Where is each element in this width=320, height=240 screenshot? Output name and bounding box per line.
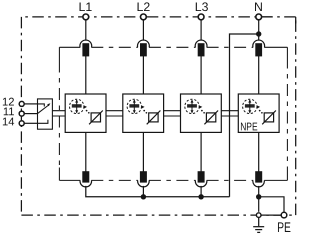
varistor L1	[89, 111, 103, 125]
wire jump L2 under linkage	[138, 180, 150, 187]
mechanical linkage right line	[286, 47, 288, 180]
wire jump L2 over linkage	[138, 40, 150, 47]
contact 14 stub	[38, 120, 48, 124]
wire terminal 11	[24, 113, 37, 115]
node bus L2	[141, 194, 146, 199]
spark gap NPE	[262, 111, 276, 125]
wire L3 module output	[200, 132, 202, 171]
disconnector NPE output	[256, 172, 262, 182]
remote signalling contact box	[38, 99, 53, 129]
mechanical linkage bottom line	[59, 179, 287, 181]
wire jump L3 under linkage	[195, 180, 207, 187]
mechanical coupling double line M2-M3	[164, 111, 181, 116]
mechanical coupling double line M1-M2	[106, 111, 123, 116]
wire N drop	[258, 20, 260, 40]
thermal disconnector monitor L2 (dashed circle)	[127, 99, 141, 113]
disconnector (thermal fuse) L1	[83, 44, 89, 56]
disconnector L3 output	[198, 172, 204, 182]
terminal circle L3	[198, 14, 204, 20]
terminal circle L1	[83, 14, 89, 20]
svg-text:L1: L1	[79, 0, 93, 14]
wire L3 to module	[200, 56, 202, 94]
disconnector (thermal fuse) N	[256, 44, 262, 56]
wire N to NPE module	[258, 56, 260, 94]
svg-text:L2: L2	[137, 0, 151, 14]
wire jump L1 under linkage	[80, 180, 92, 187]
disconnector (thermal fuse) L2	[141, 44, 147, 56]
module L3 box	[181, 94, 222, 132]
svg-text:L3: L3	[195, 0, 209, 14]
terminal circle 11	[19, 111, 24, 116]
wire L2 output to bus	[142, 186, 144, 197]
ground symbol	[253, 218, 264, 232]
wire terminal 14	[24, 122, 37, 124]
thermal disconnector monitor L1 (dashed circle)	[70, 99, 84, 113]
wire jump NPE under linkage	[253, 180, 265, 187]
wire NPE output to earth terminal	[258, 186, 260, 212]
varistor L2	[147, 111, 161, 125]
node N junction	[256, 31, 261, 36]
disconnector (thermal fuse) L3	[198, 44, 204, 56]
mechanical linkage left line	[58, 47, 60, 180]
switch arm head	[47, 103, 50, 106]
wire L3 output to bus	[200, 186, 202, 197]
module NPE box	[238, 94, 279, 132]
changeover switch arm	[38, 105, 49, 114]
disconnector L2 output	[141, 172, 147, 182]
wire terminal 12	[24, 103, 37, 105]
contact 12 stub	[38, 104, 45, 107]
wire L2 drop	[142, 20, 144, 40]
disconnector L1 output	[83, 172, 89, 182]
svg-text:14: 14	[2, 116, 14, 128]
trip action dotted arrow L1	[84, 105, 90, 113]
wire jump L3 over linkage	[195, 40, 207, 47]
wire N bus link: N junction left and down to output bus	[230, 34, 259, 197]
thermal disconnector monitor L3 (dashed circle)	[185, 99, 199, 113]
terminal circle 14	[19, 121, 24, 126]
wire L3 drop	[200, 20, 202, 40]
node NPE-PE junction	[256, 194, 261, 199]
module L1 box	[65, 94, 106, 132]
mechanical coupling double line switch-M1	[52, 111, 65, 116]
wire L2 to module	[142, 56, 144, 94]
wire top border solid segment right of N	[262, 16, 272, 18]
varistor L3	[204, 111, 218, 125]
wire junction to PE terminal	[259, 197, 284, 212]
thermal disconnector monitor NPE (dashed circle)	[243, 99, 257, 113]
terminal circle earth	[256, 213, 261, 218]
trip action dotted arrow L3	[199, 105, 205, 113]
terminal circle PE	[281, 212, 287, 218]
terminal circle 12	[19, 101, 24, 106]
wire L2 module output	[142, 132, 144, 171]
terminal circle N	[256, 14, 262, 20]
trip action dotted arrow L2	[141, 105, 147, 113]
wire jump L1 over linkage	[80, 40, 92, 47]
wire L1 to module	[85, 56, 87, 94]
node bus L3	[198, 194, 203, 199]
wire output bus to N	[86, 186, 230, 197]
wire L1 module output	[85, 132, 87, 171]
wire earth terminal to PE terminal	[261, 214, 282, 216]
svg-text:NPE: NPE	[240, 121, 257, 133]
svg-text:N: N	[254, 0, 263, 14]
mechanical linkage top line	[59, 46, 287, 48]
module L2 box	[123, 94, 164, 132]
device border (dash-dot enclosure)	[21, 17, 295, 215]
terminal circle L2	[141, 14, 147, 20]
wire NPE module output	[258, 132, 260, 171]
svg-text:PE: PE	[277, 219, 291, 235]
trip action dotted arrow NPE	[257, 105, 263, 113]
mechanical coupling double line M3-NPE	[221, 111, 238, 116]
wire L1 drop	[85, 20, 87, 40]
wire jump N over linkage	[253, 40, 265, 47]
